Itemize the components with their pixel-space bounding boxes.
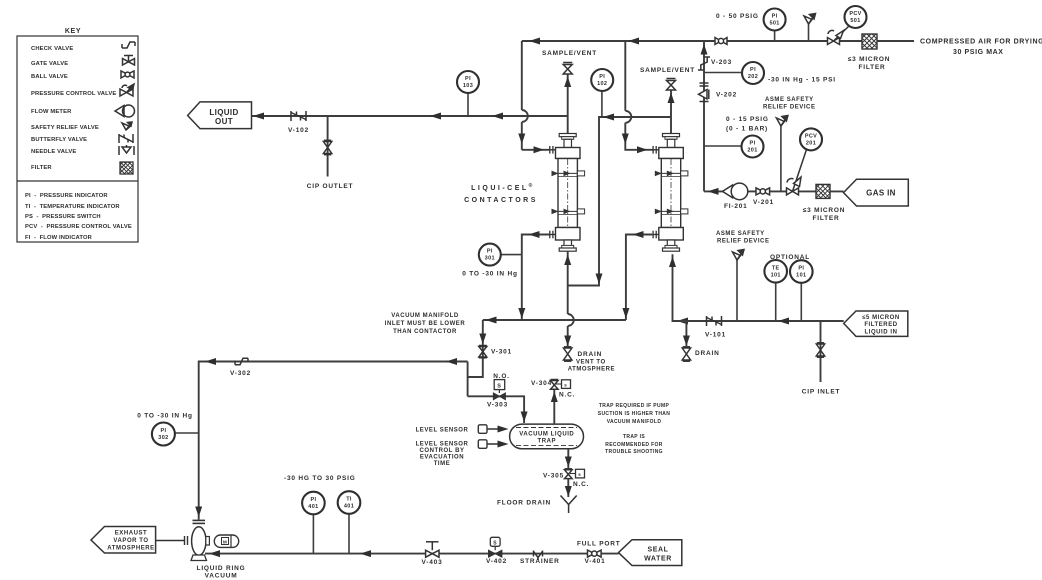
- safety relief device 2 symbol: [733, 250, 745, 322]
- svg-text:V-302: V-302: [230, 370, 251, 377]
- arrow drain down: [683, 336, 690, 347]
- wire c2 bottom port to vacuum manifold: [626, 235, 652, 321]
- svg-text:DRAIN: DRAIN: [695, 350, 720, 357]
- svg-text:PI: PI: [160, 428, 166, 434]
- svg-text:(0 - 1 BAR): (0 - 1 BAR): [726, 126, 768, 133]
- svg-text:VENT TO: VENT TO: [576, 360, 606, 366]
- svg-text:TRAP REQUIRED IF PUMP: TRAP REQUIRED IF PUMP: [599, 403, 670, 409]
- level sensor 1: [478, 425, 508, 434]
- ball valve V-401: [588, 550, 602, 557]
- level sensor 2: [478, 440, 508, 449]
- svg-text:FLOW METER: FLOW METER: [31, 109, 72, 115]
- arrow c1 drop to manifold: [518, 308, 525, 319]
- svg-text:FULL PORT: FULL PORT: [577, 541, 621, 548]
- gauge PI 102: [591, 69, 613, 117]
- svg-text:N.C.: N.C.: [573, 481, 589, 488]
- wire contactor2 liquid transfer line: [568, 117, 671, 286]
- arrow feed2 down: [622, 134, 629, 145]
- key symbol flow meter: [115, 105, 135, 117]
- arrow suction left2: [205, 358, 216, 365]
- svg-text:VACUUM LIQUID: VACUUM LIQUID: [519, 432, 574, 438]
- arrow transfer left: [603, 114, 614, 121]
- svg-text:FILTER: FILTER: [812, 215, 839, 222]
- butterfly valve V-101: [707, 316, 722, 326]
- key symbol butterfly valve: [119, 134, 133, 143]
- key symbol safety relief valve: [122, 122, 132, 130]
- wire V-305 drain: [567, 449, 569, 468]
- arrow V-305 down: [565, 457, 572, 468]
- arrow gas line left: [708, 188, 719, 195]
- ball valve V-201: [756, 188, 770, 195]
- svg-text:FLOOR DRAIN: FLOOR DRAIN: [497, 500, 551, 507]
- wire suction drop to V-303: [467, 362, 469, 397]
- svg-text:-30 HG TO 30 PSIG: -30 HG TO 30 PSIG: [284, 475, 356, 482]
- svg-text:V-101: V-101: [705, 332, 726, 339]
- svg-text:V-304: V-304: [531, 380, 552, 387]
- flow meter FI-201: [723, 183, 748, 200]
- svg-text:V-102: V-102: [288, 127, 309, 134]
- gauge PI 501: [764, 9, 786, 42]
- gauge PI 302: [152, 423, 199, 446]
- ball valve on manifold: [715, 38, 727, 45]
- svg-text:V-403: V-403: [422, 559, 443, 566]
- svg-text:INLET MUST BE LOWER: INLET MUST BE LOWER: [385, 321, 466, 327]
- svg-text:M: M: [223, 540, 227, 545]
- safety relief device 1 symbol: [776, 116, 788, 192]
- wire c1 bottom center line: [567, 251, 569, 285]
- gauge PI 201: [704, 136, 764, 158]
- svg-text:S: S: [497, 384, 501, 390]
- svg-text:COMPRESSED AIR FOR DRYING: COMPRESSED AIR FOR DRYING: [920, 39, 1042, 46]
- svg-text:V-401: V-401: [585, 558, 606, 565]
- wire gas riser V-203/V-202: [703, 41, 705, 191]
- svg-text:CIP INLET: CIP INLET: [802, 389, 841, 396]
- gate valve CIP outlet: [323, 140, 331, 154]
- wire gas inlet line: [704, 190, 844, 192]
- check valve V-202: [699, 90, 709, 100]
- svg-text:N.C.: N.C.: [559, 392, 575, 399]
- svg-text:ASME SAFETY: ASME SAFETY: [765, 97, 814, 103]
- vacuum liquid trap: [510, 424, 584, 449]
- gate valve drain vent: [564, 347, 572, 361]
- svg-text:0 - 50 PSIG: 0 - 50 PSIG: [716, 13, 759, 20]
- svg-text:BALL VALVE: BALL VALVE: [31, 74, 68, 80]
- svg-text:DRAIN: DRAIN: [578, 351, 603, 358]
- sample vent 1: [542, 50, 597, 134]
- flag GAS IN: [844, 179, 909, 206]
- arrow vacuum manifold left: [486, 317, 497, 324]
- arrow drain vent down: [564, 336, 571, 347]
- control valve PCV-501: [828, 6, 867, 45]
- svg-text:103: 103: [463, 83, 473, 89]
- arrow c2 bottom port out: [633, 231, 644, 238]
- control valve PCV-201: [787, 128, 823, 195]
- svg-text:CIP OUTLET: CIP OUTLET: [307, 183, 354, 190]
- svg-text:PS - PRESSURE SWITCH: PS - PRESSURE SWITCH: [25, 214, 101, 220]
- svg-text:GATE VALVE: GATE VALVE: [31, 61, 68, 67]
- flag 5 micron filtered liquid in: [844, 311, 908, 336]
- arrow c1 bottom feed up: [564, 255, 571, 266]
- gauge TE 101: [764, 260, 787, 321]
- svg-text:CONTROL BY: CONTROL BY: [419, 448, 464, 454]
- svg-text:≤3 MICRON: ≤3 MICRON: [848, 56, 891, 63]
- arrow pump feed down: [195, 507, 202, 518]
- key symbol check valve: [122, 42, 135, 48]
- liquid ring vacuum pump: [156, 520, 239, 560]
- wire top gas manifold: [522, 41, 914, 150]
- svg-text:BUTTERFLY VALVE: BUTTERFLY VALVE: [31, 137, 87, 143]
- svg-text:FI-201: FI-201: [724, 203, 748, 210]
- wire contactor1 feed to top port: [522, 149, 549, 151]
- arrow c2 drop to manifold: [622, 308, 629, 319]
- svg-text:THAN CONTACTOR: THAN CONTACTOR: [393, 329, 457, 335]
- solenoid valve V-402: [489, 537, 502, 557]
- svg-text:PCV - PRESSURE CONTROL VALVE: PCV - PRESSURE CONTROL VALVE: [25, 224, 132, 230]
- svg-text:LIQUID IN: LIQUID IN: [865, 330, 898, 336]
- svg-text:PI: PI: [310, 497, 316, 503]
- svg-text:TIME: TIME: [434, 461, 451, 467]
- arrow gas riser up: [701, 44, 708, 55]
- key legend box: [17, 28, 138, 242]
- gauge TI 401: [338, 491, 361, 553]
- svg-text:SAFETY RELIEF VALVE: SAFETY RELIEF VALVE: [31, 125, 99, 131]
- svg-text:501: 501: [769, 21, 779, 27]
- wire c1 bottom port to vacuum manifold: [522, 235, 549, 321]
- svg-text:TROUBLE SHOOTING: TROUBLE SHOOTING: [605, 449, 663, 455]
- svg-text:V-402: V-402: [486, 558, 507, 565]
- gate valve CIP inlet: [816, 343, 824, 357]
- union ticks above V-202: [700, 83, 709, 86]
- svg-text:FI - FLOW INDICATOR: FI - FLOW INDICATOR: [25, 235, 93, 241]
- arrow c2 bottom feed up: [669, 257, 676, 268]
- arrow V-301 down: [479, 334, 486, 345]
- arrow seal water left2: [360, 550, 371, 557]
- arrow liquid in left: [778, 318, 789, 325]
- svg-text:TRAP IS: TRAP IS: [623, 434, 645, 440]
- arrow liquid to c2 corner: [677, 318, 688, 325]
- svg-text:FILTER: FILTER: [31, 165, 52, 171]
- svg-text:PCV: PCV: [849, 11, 861, 17]
- svg-text:302: 302: [158, 435, 168, 441]
- gate valve drain right: [682, 347, 690, 361]
- wire c1 drain vent drop with hop: [568, 286, 574, 347]
- svg-text:101: 101: [771, 273, 781, 279]
- svg-text:202: 202: [748, 74, 758, 80]
- key symbol gate valve: [123, 56, 135, 66]
- arrow c1 bottom port out: [529, 231, 540, 238]
- svg-text:401: 401: [308, 504, 318, 510]
- gauge PI 301: [479, 244, 522, 266]
- sample vent 2: [640, 67, 695, 134]
- gauge PI 101: [790, 260, 813, 321]
- wire liquid inlet line: [673, 320, 844, 322]
- svg-text:PI: PI: [750, 141, 756, 147]
- arrow liquid out mid2: [492, 113, 503, 120]
- key symbol needle valve: [119, 145, 134, 155]
- svg-text:RELIEF DEVICE: RELIEF DEVICE: [763, 105, 816, 111]
- svg-text:OUT: OUT: [215, 117, 233, 126]
- svg-text:LEVEL SENSOR: LEVEL SENSOR: [416, 427, 469, 433]
- svg-text:PCV: PCV: [805, 134, 817, 140]
- arrow liquid out at flag: [253, 113, 264, 120]
- safety relief valve on manifold: [804, 14, 816, 42]
- svg-text:V-303: V-303: [487, 402, 508, 409]
- svg-text:SUCTION IS HIGHER THAN: SUCTION IS HIGHER THAN: [598, 411, 670, 417]
- svg-text:0 TO -30 IN Hg: 0 TO -30 IN Hg: [462, 271, 518, 278]
- svg-text:VACUUM: VACUUM: [205, 573, 238, 580]
- svg-text:NEEDLE VALVE: NEEDLE VALVE: [31, 149, 76, 155]
- svg-text:V-202: V-202: [716, 92, 737, 99]
- svg-text:401: 401: [344, 504, 354, 510]
- wire liquid out line: [252, 115, 568, 117]
- wire CIP inlet branch: [820, 321, 822, 382]
- flag LIQUID OUT: [188, 102, 252, 129]
- svg-text:CONTACTORS: CONTACTORS: [464, 197, 538, 204]
- gauge PI 202: [704, 62, 764, 84]
- wire vacuum manifold: [483, 319, 626, 321]
- valve V-304: [551, 380, 571, 390]
- check valve V-302: [235, 358, 248, 365]
- svg-text:TE: TE: [772, 266, 780, 272]
- svg-text:PI: PI: [772, 14, 778, 20]
- svg-text:PI: PI: [798, 266, 804, 272]
- svg-text:GAS IN: GAS IN: [866, 189, 896, 198]
- svg-text:0 - 15 PSIG: 0 - 15 PSIG: [726, 116, 769, 123]
- wire to floor drain: [567, 479, 569, 497]
- svg-text:ATMOSPHERE: ATMOSPHERE: [107, 546, 154, 552]
- svg-text:V-201: V-201: [753, 199, 774, 206]
- contactor 1: [549, 134, 585, 252]
- svg-text:201: 201: [806, 141, 816, 147]
- union tick below V-202: [700, 101, 709, 103]
- arrow suction left1: [446, 358, 457, 365]
- gauge PI 103: [457, 71, 479, 116]
- arrow V-304 up: [551, 392, 558, 403]
- svg-text:VACUUM MANIFOLD: VACUUM MANIFOLD: [607, 419, 662, 425]
- svg-text:SAMPLE/VENT: SAMPLE/VENT: [542, 50, 597, 57]
- strainer: [534, 551, 543, 561]
- svg-text:SEAL: SEAL: [647, 547, 668, 554]
- svg-text:PI - PRESSURE INDICATOR: PI - PRESSURE INDICATOR: [25, 193, 108, 199]
- svg-text:EVACUATION: EVACUATION: [420, 454, 464, 460]
- arrow into trap: [521, 412, 528, 423]
- svg-text:PI: PI: [465, 76, 471, 82]
- floor drain symbol: [561, 496, 577, 514]
- svg-text:ATMOSPHERE: ATMOSPHERE: [568, 367, 615, 373]
- svg-text:PRESSURE CONTROL VALVE: PRESSURE CONTROL VALVE: [31, 91, 116, 97]
- solenoid valve V-303: [493, 380, 505, 400]
- svg-text:LIQUID: LIQUID: [209, 108, 238, 117]
- svg-text:FILTERED: FILTERED: [864, 322, 897, 328]
- wire contactor2 feed drop: [625, 41, 652, 150]
- svg-text:501: 501: [850, 18, 860, 24]
- wire c2 bottom center feed: [673, 254, 687, 321]
- svg-text:FILTER: FILTER: [858, 64, 885, 71]
- gauge PI 401: [302, 492, 325, 554]
- arrow liquid out mid1: [430, 113, 441, 120]
- svg-text:0 TO -30 IN Hg: 0 TO -30 IN Hg: [137, 413, 193, 420]
- key symbol pressure control valve: [120, 84, 134, 96]
- svg-text:VAPOR TO: VAPOR TO: [113, 538, 148, 544]
- filter on gas line: [816, 184, 830, 198]
- wire drain branch right: [685, 321, 687, 346]
- svg-text:301: 301: [485, 256, 495, 262]
- arrow transfer down: [596, 274, 603, 285]
- contactor 2: [652, 134, 688, 252]
- svg-text:30 PSIG MAX: 30 PSIG MAX: [953, 49, 1004, 56]
- svg-text:102: 102: [597, 81, 607, 87]
- svg-text:LIQUID RING: LIQUID RING: [197, 565, 246, 572]
- svg-text:EXHAUST: EXHAUST: [115, 531, 148, 537]
- svg-text:CHECK VALVE: CHECK VALVE: [31, 46, 73, 52]
- svg-text:KEY: KEY: [65, 28, 81, 35]
- arrow into c2 top port: [637, 146, 648, 153]
- filter on manifold: [862, 34, 877, 49]
- arrow manifold mid: [628, 38, 639, 45]
- arrow manifold left: [529, 38, 540, 45]
- key symbol ball valve: [121, 71, 134, 78]
- svg-text:PI: PI: [750, 67, 756, 73]
- svg-text:STRAINER: STRAINER: [520, 558, 560, 565]
- svg-text:WATER: WATER: [644, 556, 672, 563]
- arrow floor drain down: [565, 486, 572, 497]
- svg-text:TI - TEMPERATURE INDICATOR: TI - TEMPERATURE INDICATOR: [25, 204, 120, 210]
- flag exhaust vapor to atmosphere: [91, 527, 156, 554]
- valve V-305: [565, 469, 585, 479]
- svg-text:RECOMMENDED FOR: RECOMMENDED FOR: [605, 442, 663, 448]
- wire pump suction line: [199, 362, 468, 520]
- butterfly valve V-102: [291, 111, 306, 121]
- svg-text:PI: PI: [487, 249, 493, 255]
- flag SEAL WATER: [619, 540, 682, 566]
- key symbol filter: [120, 162, 133, 174]
- svg-text:201: 201: [747, 148, 757, 154]
- check valve V-203: [698, 57, 710, 70]
- arrow feed1 down: [518, 134, 525, 145]
- svg-text:TI: TI: [346, 497, 352, 503]
- svg-text:PI: PI: [599, 74, 605, 80]
- arrow seal water left1: [209, 550, 220, 557]
- svg-text:TRAP: TRAP: [538, 439, 557, 445]
- svg-text:ASME SAFETY: ASME SAFETY: [716, 231, 765, 237]
- svg-text:≤3 MICRON: ≤3 MICRON: [803, 207, 846, 214]
- svg-text:≤5 MICRON: ≤5 MICRON: [862, 315, 900, 321]
- svg-text:-30 IN Hg - 15 PSI: -30 IN Hg - 15 PSI: [768, 77, 836, 84]
- svg-text:LEVEL SENSOR: LEVEL SENSOR: [416, 441, 469, 447]
- svg-text:V-301: V-301: [491, 349, 512, 356]
- wire V-304 vent: [553, 389, 555, 424]
- gate valve V-403: [426, 542, 439, 557]
- svg-text:SAMPLE/VENT: SAMPLE/VENT: [640, 67, 695, 74]
- svg-text:V-305: V-305: [543, 473, 564, 480]
- arrow into c1 top port: [534, 146, 545, 153]
- svg-text:RELIEF DEVICE: RELIEF DEVICE: [717, 239, 770, 245]
- wire V-301 branch: [468, 320, 483, 377]
- svg-text:VACUUM MANIFOLD: VACUUM MANIFOLD: [391, 313, 459, 319]
- wire CIP outlet branch: [327, 116, 329, 177]
- svg-text:V-203: V-203: [711, 59, 732, 66]
- wire V-303 line to trap: [468, 396, 524, 423]
- gate valve V-301: [479, 346, 487, 358]
- svg-text:101: 101: [796, 273, 806, 279]
- wire seal water line: [205, 553, 619, 555]
